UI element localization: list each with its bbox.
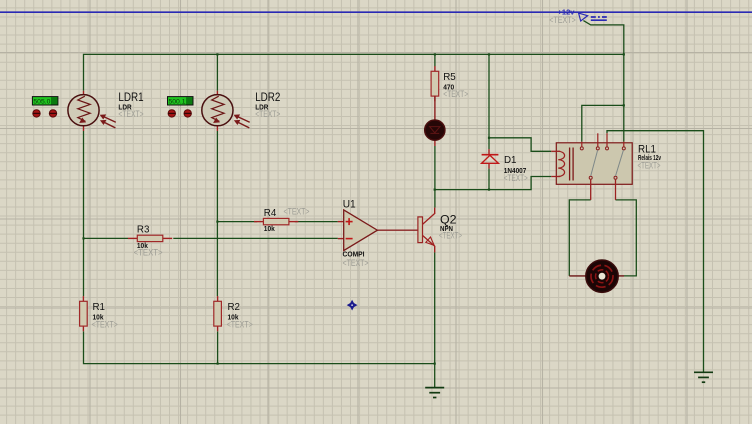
svg-text:R2: R2	[228, 302, 241, 313]
svg-text:<TEXT>: <TEXT>	[549, 15, 576, 25]
svg-text:U1: U1	[343, 199, 356, 211]
svg-text:<TEXT>: <TEXT>	[439, 231, 462, 241]
svg-text:<TEXT>: <TEXT>	[255, 109, 280, 119]
svg-text:<TEXT>: <TEXT>	[504, 173, 528, 183]
svg-text:R4: R4	[264, 208, 277, 219]
svg-text:D1: D1	[504, 155, 517, 166]
svg-text:<TEXT>: <TEXT>	[284, 206, 310, 216]
svg-text:<TEXT>: <TEXT>	[343, 258, 369, 268]
svg-text:<TEXT>: <TEXT>	[118, 109, 143, 119]
svg-text:<TEXT>: <TEXT>	[638, 160, 661, 170]
svg-text:R1: R1	[93, 302, 106, 313]
svg-text:<TEXT>: <TEXT>	[227, 319, 253, 329]
svg-text:<TEXT>: <TEXT>	[134, 248, 163, 258]
svg-text:500.1: 500.1	[169, 99, 186, 106]
svg-text:<TEXT>: <TEXT>	[443, 89, 468, 99]
svg-text:R3: R3	[137, 225, 150, 236]
svg-text:10k: 10k	[264, 224, 275, 233]
svg-text:<TEXT>: <TEXT>	[92, 319, 118, 329]
svg-text:505.0: 505.0	[33, 99, 50, 106]
